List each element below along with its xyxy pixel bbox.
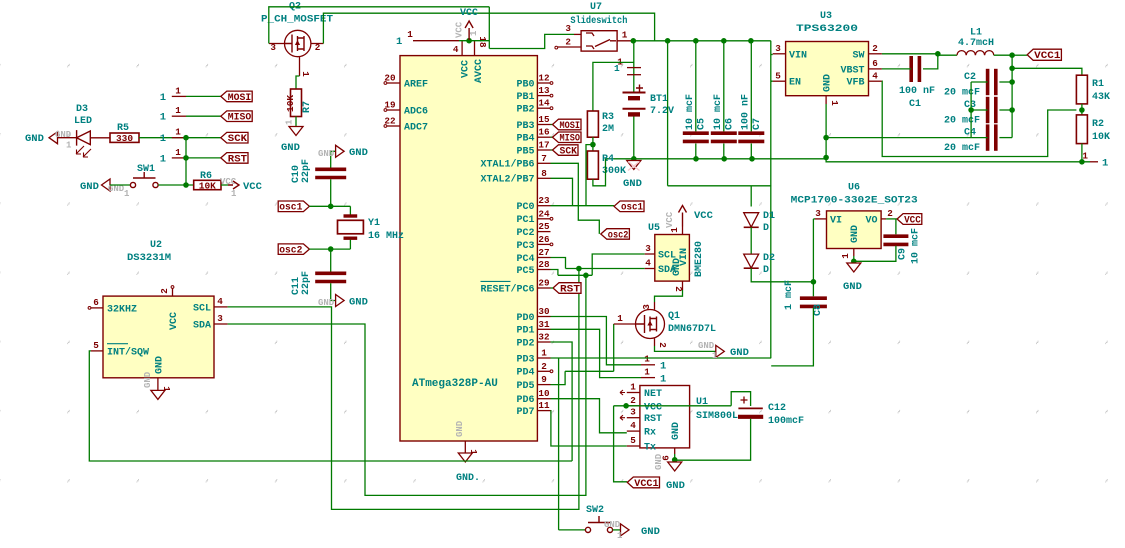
global label RST at U4 — [553, 283, 581, 294]
wire PD5 row to Q1 gate — [565, 370, 614, 372]
svg-text:2: 2 — [657, 342, 668, 348]
svg-text:PC5: PC5 — [516, 266, 534, 277]
svg-text:2: 2 — [630, 395, 636, 406]
svg-text:PD1: PD1 — [516, 326, 534, 337]
svg-text:U7: U7 — [590, 2, 602, 13]
svg-text:PD7: PD7 — [516, 407, 534, 418]
svg-text:PB0: PB0 — [516, 79, 534, 90]
svg-text:2: 2 — [315, 42, 321, 53]
svg-text:VO: VO — [865, 215, 877, 226]
U5 pin 2 GND stub — [682, 281, 684, 290]
svg-text:R7: R7 — [302, 101, 313, 113]
svg-text:MISO: MISO — [560, 133, 581, 145]
svg-text:1: 1 — [1102, 158, 1108, 170]
svg-text:GND: GND — [671, 422, 682, 440]
global label osc2 at U4 — [601, 229, 630, 240]
wire PC0 osc1 row — [551, 205, 615, 207]
svg-text:22pF: 22pF — [301, 159, 312, 183]
svg-text:C2: C2 — [964, 72, 976, 83]
svg-text:BT1: BT1 — [650, 94, 668, 105]
svg-text:1: 1 — [175, 105, 181, 116]
svg-text:28: 28 — [538, 259, 550, 270]
svg-text:EN: EN — [789, 78, 801, 89]
power VCC at U5 — [679, 206, 687, 227]
Q1 pin 3 drain stub — [654, 302, 656, 310]
svg-text:1: 1 — [630, 382, 636, 393]
wire PD2 to INT line — [551, 342, 573, 461]
test point pin at VCC — [413, 40, 459, 42]
svg-text:U3: U3 — [820, 11, 832, 22]
global label VCC at U6 — [897, 214, 922, 225]
svg-text:GND: GND — [666, 480, 685, 492]
svg-text:VCC: VCC — [665, 211, 675, 228]
junction rail x=723.8 — [721, 38, 727, 44]
wire C2 left — [971, 81, 988, 83]
svg-text:1: 1 — [66, 141, 72, 151]
wire U2 SCL long — [228, 269, 579, 510]
pin 26 PC3 stub — [537, 243, 550, 245]
svg-text:30: 30 — [538, 306, 550, 317]
wire rail to C7 — [750, 41, 752, 132]
wire to VIN — [771, 54, 773, 56]
svg-text:MISO: MISO — [228, 112, 251, 124]
test point pin MOSI row — [172, 95, 186, 97]
global label osc1 at U4 — [614, 201, 644, 212]
svg-text:XTAL2/PB7: XTAL2/PB7 — [480, 174, 534, 186]
svg-text:1: 1 — [660, 374, 666, 386]
junction R2 bottom — [1079, 159, 1085, 165]
wire PD3 long row — [551, 357, 772, 359]
ground at U1 — [668, 462, 682, 471]
svg-text:GND: GND — [55, 130, 72, 140]
svg-text:16 MHz: 16 MHz — [368, 231, 404, 242]
svg-text:32: 32 — [538, 332, 550, 343]
wire C2 C3 C4 left bus — [970, 82, 972, 138]
wire PD3 to SW2 — [558, 358, 560, 530]
ic U1 SIM800L body — [640, 386, 690, 448]
svg-text:1 mcF: 1 mcF — [784, 280, 795, 310]
junction divider mid — [1079, 107, 1085, 113]
U3 pin 4 VFB stub — [869, 80, 882, 82]
svg-text:NET: NET — [644, 389, 662, 400]
wire VCC node horizontal — [459, 40, 489, 42]
svg-text:VCC: VCC — [169, 312, 180, 330]
svg-text:1: 1 — [622, 30, 628, 41]
svg-text:7.2V: 7.2V — [650, 106, 674, 117]
svg-text:VCC: VCC — [904, 214, 921, 226]
svg-text:Slideswitch: Slideswitch — [570, 15, 627, 27]
svg-text:GND: GND — [850, 225, 861, 243]
svg-text:GND: GND — [823, 74, 834, 92]
Q2 pin 1 stub — [299, 57, 301, 76]
pin 8 XTAL2/PB7 stub — [537, 177, 550, 179]
junction rail x=695.8 — [693, 38, 699, 44]
power VCC at R6 — [228, 181, 239, 189]
LED D3 — [77, 130, 110, 146]
capacitor C3 20mcF — [986, 97, 990, 123]
pin 22 ADC7 stub — [387, 125, 400, 127]
ground below U4 — [458, 453, 472, 462]
svg-text:PD6: PD6 — [516, 395, 534, 406]
wire node to L1 — [938, 54, 957, 56]
pin 23 PC0 stub — [537, 205, 550, 207]
U5 pin 4 SDA stub — [645, 268, 655, 270]
wire U3 GND down — [825, 104, 827, 158]
capacitor C2 20mcF — [986, 69, 990, 95]
wire PD0 to TP1 — [551, 317, 642, 365]
wire C5 to GND rail — [695, 144, 697, 159]
svg-text:5: 5 — [630, 435, 636, 446]
svg-text:BME280: BME280 — [694, 241, 705, 277]
pin 9 PD5 stub — [537, 384, 550, 386]
svg-text:Y1: Y1 — [368, 218, 380, 229]
svg-text:GND: GND — [730, 347, 749, 359]
svg-text:R1: R1 — [1092, 79, 1104, 90]
pin 13 PB1 stub — [537, 95, 550, 97]
junction C2 right — [1009, 79, 1015, 85]
wire to MISO label — [186, 115, 221, 117]
svg-text:ADC7: ADC7 — [404, 122, 428, 133]
svg-text:2: 2 — [159, 288, 170, 294]
U7 pin 2 stub — [558, 46, 581, 48]
svg-text:1: 1 — [660, 361, 666, 373]
svg-text:L1: L1 — [970, 28, 982, 39]
wire PD1 to TP2 — [551, 329, 642, 377]
svg-text:1: 1 — [175, 127, 181, 138]
svg-text:PD5: PD5 — [516, 381, 534, 392]
svg-text:10 mcF: 10 mcF — [685, 94, 696, 130]
svg-text:3: 3 — [270, 42, 276, 53]
svg-text:4: 4 — [872, 71, 878, 82]
svg-text:U5: U5 — [648, 223, 660, 234]
pin 10 PD6 stub — [537, 398, 550, 400]
wire rail to D1 branch — [667, 41, 669, 186]
svg-text:PB5: PB5 — [516, 146, 534, 157]
svg-text:330: 330 — [116, 133, 133, 144]
U5 pin 1 VIN stub — [682, 227, 684, 235]
U5 pin 3 SCL stub — [645, 253, 655, 255]
pin 16 PB4 stub — [537, 136, 550, 138]
ground at SW1 — [102, 179, 111, 191]
wire VCC1 node down — [1011, 55, 1013, 137]
wire C3 right — [999, 109, 1012, 111]
svg-text:SIM800L: SIM800L — [696, 411, 738, 422]
pin GND bottom stub — [464, 441, 466, 453]
svg-text:1: 1 — [541, 348, 547, 359]
wire U2 INT/SQW long — [89, 351, 572, 461]
resistor R5 — [110, 133, 139, 142]
svg-text:AREF: AREF — [404, 79, 428, 90]
svg-text:PC3: PC3 — [516, 241, 534, 252]
resistor R1 — [1076, 75, 1087, 104]
U7 pin 3 stub — [574, 33, 581, 35]
pin 19 ADC6 stub — [387, 109, 400, 111]
wire osc2 row — [309, 248, 350, 250]
global label osc1 — [278, 201, 309, 212]
svg-text:SW1: SW1 — [137, 164, 155, 175]
junction C3 left — [968, 107, 974, 113]
svg-text:VCC1: VCC1 — [634, 478, 658, 490]
U1 pin 5 Tx stub — [627, 445, 640, 447]
svg-text:SW2: SW2 — [586, 505, 604, 516]
svg-text:VCC: VCC — [460, 8, 478, 19]
test point tick 1 — [627, 67, 641, 69]
svg-text:D3: D3 — [76, 104, 88, 115]
wire R5 to SCK node — [139, 137, 186, 139]
wire rail to EN and down — [770, 41, 772, 358]
svg-text:3: 3 — [775, 43, 781, 54]
svg-text:GND: GND — [155, 356, 166, 374]
wire R7 to ground — [295, 117, 297, 127]
wire R2 bottom — [1081, 144, 1083, 162]
junction GND rail x=752 — [749, 156, 755, 162]
svg-text:6: 6 — [872, 58, 878, 69]
svg-text:10: 10 — [538, 388, 550, 399]
ic U4 ATmega328P-AU body — [400, 56, 537, 441]
svg-text:VCC: VCC — [455, 21, 465, 38]
svg-text:R5: R5 — [117, 123, 129, 134]
svg-text:1: 1 — [160, 112, 166, 124]
svg-text:D: D — [763, 265, 769, 276]
svg-text:SCK: SCK — [560, 145, 578, 157]
junction VCC node — [466, 38, 472, 44]
wire D2 to C8 node — [751, 268, 813, 282]
U2 pin 3 SDA stub — [214, 323, 228, 325]
global label osc2 — [278, 244, 309, 255]
svg-text:XTAL1/PB6: XTAL1/PB6 — [480, 159, 534, 171]
svg-text:SDA: SDA — [193, 321, 211, 332]
svg-text:31: 31 — [538, 319, 550, 330]
U7 pin 1 stub — [617, 40, 633, 42]
junction SW C1 L1 — [935, 51, 941, 57]
junction SCL long tap — [576, 266, 582, 272]
svg-text:23: 23 — [538, 195, 550, 206]
U2 GND pin stub — [157, 378, 159, 391]
ground at C10 — [336, 145, 345, 157]
svg-text:D2: D2 — [763, 253, 775, 264]
wire to C12 plus — [731, 392, 750, 406]
junction VCC1 node — [1009, 52, 1015, 58]
wire SCK to R6 node — [185, 138, 187, 185]
U3 pin 2 SW stub — [869, 53, 882, 55]
svg-text:1: 1 — [617, 313, 623, 324]
U2 pin 6 32KHZ stub — [91, 307, 103, 309]
svg-text:P_CH_MOSFET: P_CH_MOSFET — [261, 14, 333, 26]
svg-text:1: 1 — [175, 147, 181, 158]
capacitor C12 100mcF polarized — [738, 407, 762, 409]
svg-text:Tx: Tx — [644, 443, 656, 454]
wire XTAL2 to osc1 row — [551, 178, 573, 206]
resistor R3 — [587, 111, 598, 137]
svg-text:VCC: VCC — [461, 60, 472, 78]
svg-text:3: 3 — [565, 23, 571, 34]
switch SW1 — [110, 184, 131, 186]
svg-text:1: 1 — [160, 133, 166, 145]
Q1 pin 2 source stub — [654, 338, 656, 346]
svg-text:1: 1 — [407, 29, 413, 40]
svg-text:16: 16 — [538, 127, 550, 138]
wire C2 right — [999, 81, 1012, 83]
svg-text:D1: D1 — [763, 211, 775, 222]
svg-text:4.7mcH: 4.7mcH — [958, 38, 994, 49]
battery BT1 — [623, 92, 646, 94]
test point pin MISO row — [172, 115, 186, 117]
pin 15 PB3 stub — [537, 124, 550, 126]
wire C10 top to GND — [331, 151, 336, 167]
ic U2 DS3231M body — [103, 296, 214, 378]
svg-text:43K: 43K — [1092, 92, 1110, 103]
svg-text:PB3: PB3 — [516, 121, 534, 132]
U3 GND pin stub — [825, 96, 827, 104]
pin 1 connector right — [1090, 161, 1098, 163]
svg-text:C1: C1 — [909, 99, 921, 110]
wire C10 bottom to osc1 node — [330, 179, 332, 206]
svg-text:1: 1 — [160, 92, 166, 104]
wire Q2 source to battery rail — [323, 13, 654, 43]
capacitor C11 22pF — [330, 249, 332, 271]
U6 pin 3 VI stub — [815, 218, 827, 220]
ic U6 MCP1700 body — [827, 211, 882, 249]
svg-text:VIN: VIN — [789, 50, 807, 61]
svg-text:1: 1 — [829, 100, 840, 106]
pin 29 RESET/PC6 stub — [537, 287, 550, 289]
U2 pin 5 INT/SQW stub — [91, 350, 103, 352]
svg-text:GND: GND — [672, 258, 683, 276]
svg-text:1: 1 — [617, 531, 623, 541]
svg-text:VI: VI — [830, 215, 842, 226]
global label VCC1 at U1 — [627, 477, 659, 488]
wire C7 to GND rail — [750, 144, 752, 159]
svg-text:100 nF: 100 nF — [899, 86, 935, 97]
svg-text:2: 2 — [541, 361, 547, 372]
U3 pin 6 VBST stub — [869, 68, 882, 70]
U1 pin 2 VCC stub — [627, 405, 640, 407]
svg-text:ATmega328P-AU: ATmega328P-AU — [412, 378, 498, 390]
wire rail to BT1 — [633, 41, 635, 92]
svg-text:20 mcF: 20 mcF — [944, 143, 980, 154]
wire to R1 top — [1012, 68, 1082, 75]
svg-text:2: 2 — [565, 37, 571, 48]
transistor Q1 DMN67D7L — [636, 310, 665, 339]
svg-text:Rx: Rx — [644, 428, 656, 439]
pin 25 PC2 stub — [537, 231, 550, 233]
ground at U6 — [847, 263, 861, 272]
svg-text:PC1: PC1 — [516, 215, 534, 226]
svg-text:PC2: PC2 — [516, 228, 534, 239]
U3 pin 5 EN stub — [773, 80, 786, 82]
wire VBST to C1 — [882, 68, 911, 70]
wire PC4 elbow — [551, 258, 566, 269]
wire Q1 source to GND — [655, 346, 716, 351]
wire R6 to VCC — [221, 184, 228, 186]
wire to U7 pin3 — [489, 34, 574, 48]
wire C1 to SW node — [923, 54, 938, 69]
wire to U5 SCL — [592, 254, 645, 275]
svg-text:4: 4 — [217, 296, 223, 307]
svg-text:PB2: PB2 — [516, 105, 534, 116]
wire Q2 drain to VCC node — [269, 7, 490, 44]
wire C3 left — [971, 109, 988, 111]
U1 pin 4 Rx stub — [627, 430, 640, 432]
svg-text:C12: C12 — [768, 403, 786, 414]
test point pin RST row — [172, 157, 186, 159]
junction U6 GND — [851, 259, 857, 265]
U3 pin 3 VIN stub — [773, 53, 786, 55]
svg-text:4: 4 — [630, 420, 636, 431]
wire U5 GND to Q1 drain — [655, 290, 683, 302]
wire R3 to R4 — [592, 137, 594, 151]
svg-text:10K: 10K — [199, 181, 216, 192]
svg-text:MOSI: MOSI — [560, 120, 581, 132]
svg-text:8: 8 — [541, 168, 547, 179]
svg-text:GND: GND — [623, 178, 642, 190]
Q2 pin 3 stub — [269, 43, 285, 45]
wire C4 left — [971, 137, 988, 139]
svg-text:32KHZ: 32KHZ — [107, 304, 137, 315]
svg-text:PB1: PB1 — [516, 92, 534, 103]
svg-text:VCC: VCC — [243, 181, 263, 193]
U6 GND pin stub — [853, 249, 855, 257]
junction R3 R4 divider — [590, 142, 596, 148]
U1 pin 3 RST stub — [627, 417, 640, 419]
wire SW to node — [882, 53, 938, 55]
resistor R4 — [587, 151, 598, 179]
svg-text:Q1: Q1 — [668, 311, 680, 322]
wire L1 to VCC1 node — [994, 54, 1012, 56]
svg-text:C7: C7 — [752, 118, 763, 130]
wire SW1 to R6 — [158, 184, 194, 186]
svg-text:GND: GND — [455, 420, 465, 437]
pin 17 PB5 stub — [537, 149, 550, 151]
svg-text:GND: GND — [843, 281, 862, 293]
wire C6 to GND rail — [723, 144, 725, 159]
wire PC4 to U5 SDA — [566, 268, 645, 270]
svg-text:19: 19 — [384, 100, 396, 111]
svg-text:10K: 10K — [285, 95, 296, 112]
junction R1 branch — [1009, 66, 1015, 72]
wire VCC node vertical — [488, 7, 490, 49]
junction SDA long tap — [583, 273, 589, 279]
U1 pin 1 NET stub — [627, 392, 640, 394]
svg-text:7: 7 — [541, 153, 547, 164]
wire Q1 gate vertical — [613, 324, 615, 371]
ground below U2 — [151, 390, 165, 399]
svg-text:10 mcF: 10 mcF — [911, 228, 922, 264]
svg-text:1: 1 — [124, 189, 130, 199]
U1 pin 6 GND stub — [674, 448, 676, 454]
svg-text:GND.: GND. — [456, 473, 480, 484]
ic U3 TPS63200 body — [786, 42, 869, 96]
wire GND rail — [606, 158, 827, 160]
svg-text:1: 1 — [644, 367, 650, 378]
wire C8 bottom — [771, 308, 813, 366]
svg-text:29: 29 — [538, 278, 550, 289]
wire Y1 bottom to osc2 node — [349, 240, 351, 250]
test point TP1 pin — [641, 364, 655, 366]
wire to MOSI label — [186, 95, 221, 97]
svg-text:24: 24 — [538, 208, 550, 219]
global label SCK at U4 — [553, 145, 579, 156]
svg-text:PD0: PD0 — [516, 313, 534, 324]
pin 18 AVCC stub — [474, 41, 476, 56]
capacitor C5 — [683, 131, 709, 135]
svg-text:20 mcF: 20 mcF — [944, 88, 980, 99]
svg-text:GND: GND — [641, 526, 660, 538]
junction U1 VCC — [623, 403, 629, 409]
svg-text:RST: RST — [228, 153, 247, 165]
svg-text:PD3: PD3 — [516, 354, 534, 365]
pin 31 PD1 stub — [537, 328, 550, 330]
